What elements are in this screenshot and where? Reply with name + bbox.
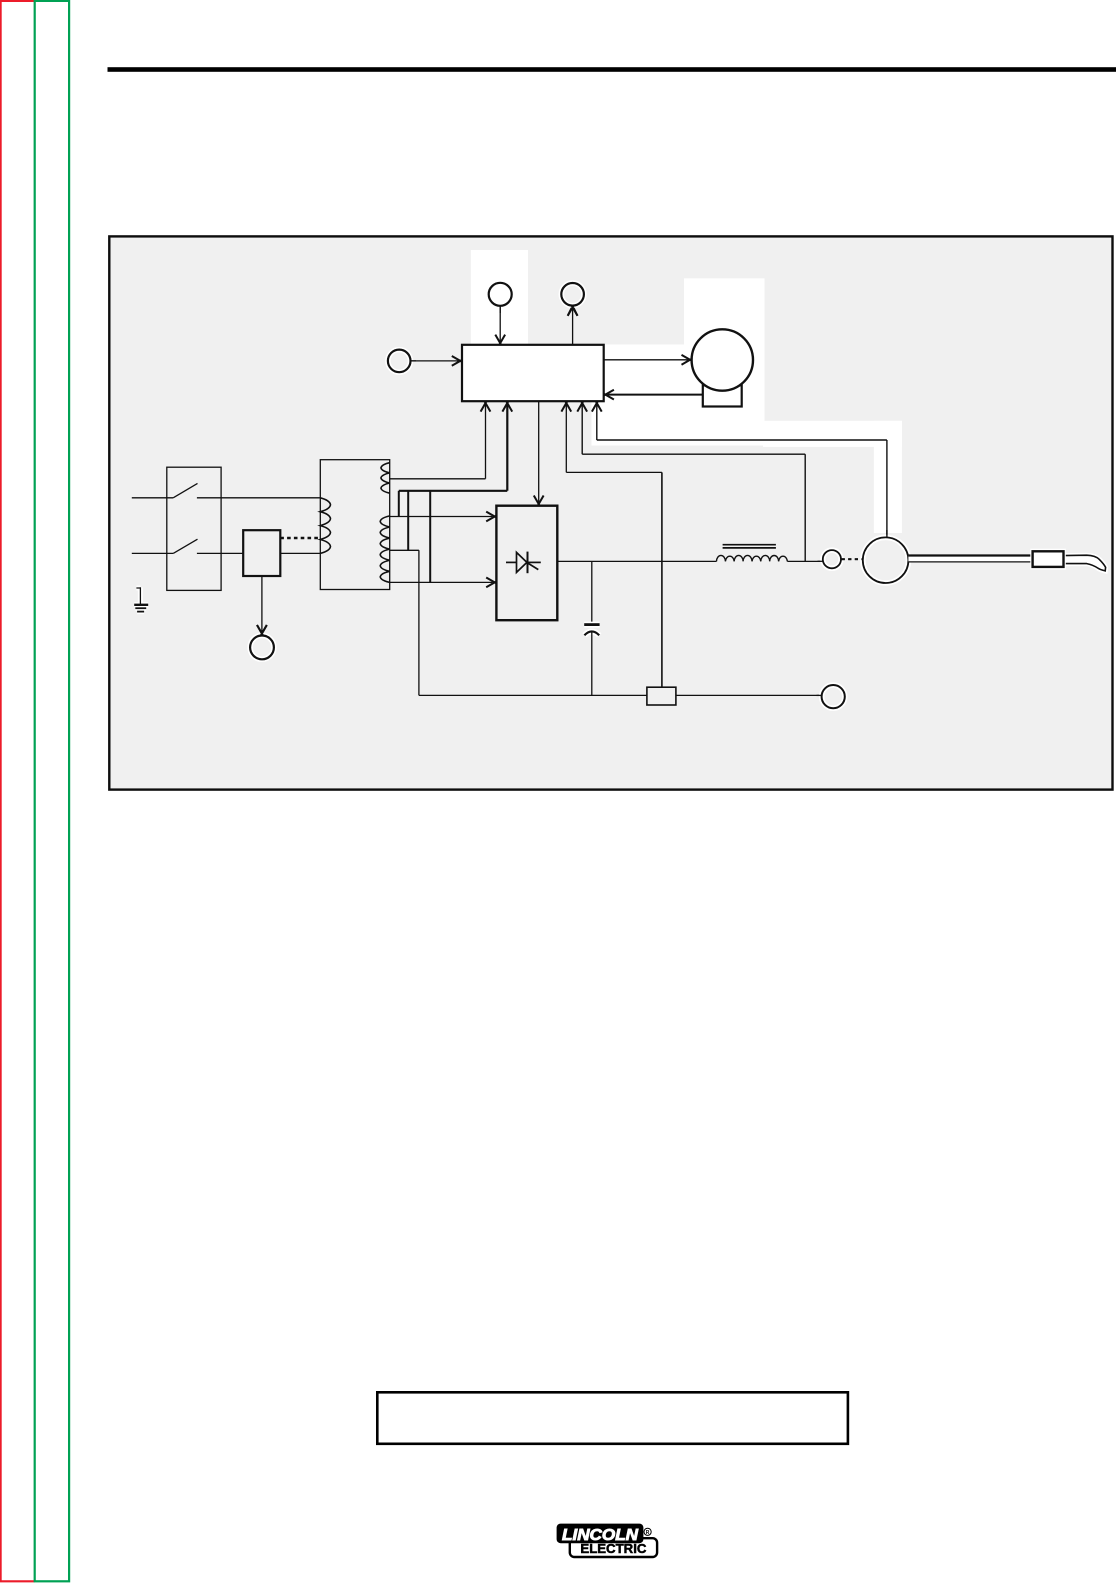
wire secondary tap to rectifier [390, 516, 493, 518]
wire rectifier output [557, 560, 716, 562]
wire aux winding to control board [390, 404, 486, 479]
wire board to dial [572, 309, 574, 345]
arrowhead down into rectifier [534, 496, 544, 506]
capacitor C1 lead to rail [591, 632, 593, 695]
wire sense bus [399, 404, 508, 491]
trigger input circle [388, 350, 411, 373]
wire trigger loop [597, 404, 887, 538]
wire secondary bottom to rectifier [390, 581, 493, 583]
arrowhead right into motor [682, 355, 692, 365]
wire voltage sense drop [804, 454, 806, 561]
arrowhead down into board [495, 335, 505, 345]
wire input line 2 [132, 552, 173, 554]
arrowhead up into board [561, 401, 571, 411]
wire board to rectifier gate [538, 401, 540, 504]
wire board to motor [604, 359, 689, 361]
arrowhead right into board [452, 356, 462, 366]
shunt block [647, 687, 676, 705]
gun cable lines [908, 555, 1032, 562]
transformer T1 aux secondary winding [381, 463, 390, 494]
wire choke to connector [787, 560, 823, 562]
input power switch S1 box [167, 467, 221, 590]
output rectifier SCR bridge box [496, 506, 557, 621]
wire sense drop 1 [398, 491, 400, 517]
wire CB1 to transformer [280, 552, 320, 554]
wire line 1 to transformer [197, 497, 320, 499]
gun body circle [863, 537, 909, 583]
Lincoln Electric logo [557, 1524, 658, 1557]
arrowhead up into board [502, 401, 512, 411]
white patch behind motor [684, 278, 765, 345]
switch S1 blade 1 [173, 483, 197, 497]
arrowhead right into rectifier [486, 578, 496, 588]
arrowhead right into rectifier [486, 512, 496, 522]
white patch band right [763, 421, 902, 447]
capacitor C1 plates [584, 625, 599, 636]
white patch behind wire-speed circle [471, 250, 528, 345]
choke L1 winding [717, 555, 788, 561]
choke L1 core [723, 545, 776, 548]
arrowhead left into board [604, 390, 614, 400]
wire bottom rail [419, 694, 647, 696]
switch S1 blade 2 [173, 539, 197, 553]
wire shunt to remote circle [676, 694, 822, 696]
fan motor circle [250, 636, 274, 660]
diagram frame [109, 236, 1112, 789]
ground [134, 587, 148, 611]
arrowhead up into board [592, 401, 602, 411]
transformer T1 box [320, 460, 389, 590]
wire trigger to board [411, 360, 459, 362]
arrowhead up into board [577, 401, 587, 411]
gun nozzle tip [1064, 555, 1106, 571]
top rule [108, 67, 1116, 72]
gun connector circle [823, 550, 841, 568]
green margin bar [35, 1, 69, 1581]
transformer T1 primary winding [320, 498, 330, 554]
dashed gun link [842, 558, 863, 560]
transformer T1 main secondary winding [380, 516, 390, 583]
gun handle rect [1031, 549, 1066, 569]
wire-speed dial circle [489, 283, 512, 306]
arrowhead up into dial [568, 306, 578, 316]
arrowhead down to fan [257, 625, 267, 635]
wire current feedback [566, 404, 662, 473]
wire sense drop 2 [407, 491, 409, 551]
wire connection stubs [818, 560, 824, 562]
dashed link CB1 to primary [280, 537, 320, 539]
wire line 2 to CB1 [197, 552, 243, 554]
wire voltage feedback [582, 404, 805, 455]
capacitor C1 lead [591, 561, 593, 622]
voltage dial circle [561, 283, 584, 306]
wire sense drop 3 [429, 491, 431, 583]
wire center tap step [390, 550, 419, 695]
wire dial to board [499, 306, 501, 343]
wire shunt drop [661, 472, 663, 687]
SCR symbol [506, 552, 541, 574]
control board PCB [462, 345, 604, 401]
svg-text:ELECTRIC: ELECTRIC [580, 1542, 646, 1556]
wire feed motor M circle [692, 329, 753, 390]
caption box [377, 1392, 848, 1444]
svg-text:R: R [646, 1530, 650, 1536]
white patch column right [874, 421, 902, 533]
red margin bar [1, 1, 35, 1581]
arrowhead up into board [481, 401, 491, 411]
circuit breaker CB1 [243, 530, 280, 576]
wire CB1 to fan circle [261, 576, 263, 634]
wire feed motor base [703, 385, 742, 406]
remote circle [822, 685, 845, 708]
white patch right of control board [592, 345, 765, 446]
wire input line 1 [132, 497, 173, 499]
wire motor tach return [608, 394, 703, 396]
